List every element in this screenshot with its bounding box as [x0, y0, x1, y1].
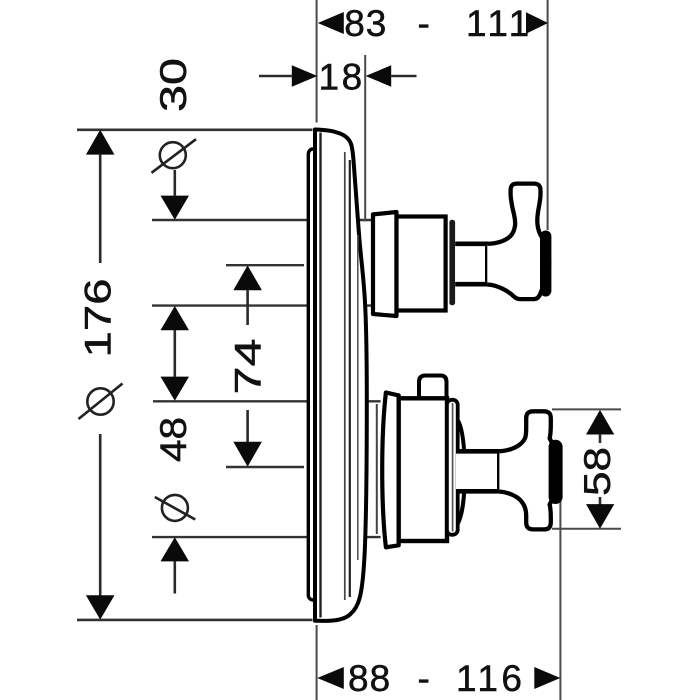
- dimension 83-111 (top): [318, 3, 548, 44]
- construction line lower rim top (y=401): [153, 400, 381, 402]
- extension line plate back (top): [316, 0, 318, 123]
- dimension diameter 30: [152, 58, 197, 377]
- lower cross handle: [499, 411, 555, 529]
- lower cap inner line: [452, 403, 454, 532]
- arrowhead up at y306: [161, 306, 190, 330]
- upper cross handle: [487, 184, 549, 300]
- construction line upper rim bottom (y=306): [152, 304, 371, 306]
- construction line top (plate top, y=130): [77, 129, 313, 132]
- construction line lower rim bottom (y=537): [152, 536, 381, 538]
- dimension line lower: [599, 497, 602, 505]
- arrowhead left: [318, 12, 344, 34]
- arrowhead up: [233, 265, 262, 290]
- arrowhead down at y220: [161, 196, 190, 220]
- extension line lower handle front: [559, 495, 561, 700]
- escutcheon plate back lip: [308, 149, 317, 600]
- construction line upper handle axis (y=265): [226, 264, 304, 266]
- svg-text:58: 58: [577, 447, 618, 496]
- dimension 74: [228, 265, 269, 466]
- diameter symbol: [162, 495, 188, 521]
- svg-text:30: 30: [153, 58, 194, 112]
- upper valve body cylinder: [397, 217, 446, 311]
- dimension 58: [577, 410, 618, 529]
- arrowhead right: [526, 12, 548, 33]
- lower stem: [456, 451, 499, 491]
- plate dome base line: [357, 235, 359, 560]
- arrowhead left: [317, 667, 344, 689]
- dimension line upper: [246, 290, 249, 325]
- svg-text:48: 48: [153, 417, 194, 462]
- plate ring edge 2: [349, 160, 351, 597]
- dimension 18: [259, 57, 417, 98]
- extension line plate front (18 dim): [364, 55, 366, 222]
- extension line lower handle bottom: [552, 528, 621, 530]
- dimension line upper: [99, 154, 102, 263]
- arrowhead pointing right: [292, 65, 318, 87]
- svg-text:74: 74: [228, 339, 269, 395]
- tail line below: [174, 561, 177, 594]
- leader line left: [259, 75, 292, 78]
- extension line upper handle front: [547, 0, 549, 230]
- lower valve collar: [382, 393, 399, 548]
- lower front dome: [458, 421, 465, 524]
- diameter symbol: [87, 388, 113, 414]
- svg-text:176: 176: [78, 279, 119, 358]
- arrowhead down: [233, 442, 262, 467]
- dimension diameter 48: [153, 377, 195, 594]
- construction line upper rim top (y=220): [152, 219, 371, 221]
- arrowhead up: [86, 130, 115, 155]
- extension line plate back (bottom): [316, 625, 318, 700]
- dimension line lower: [246, 410, 249, 442]
- escutcheon plate silhouette: [315, 130, 367, 621]
- lower handle front arm (black band): [549, 447, 563, 497]
- upper valve collar: [373, 212, 397, 316]
- construction line plate bottom (y=620): [77, 619, 313, 622]
- leader line right: [391, 75, 416, 78]
- tail line: [174, 330, 177, 377]
- dimension 88-116 (bottom): [317, 658, 560, 699]
- lower front cap: [447, 400, 458, 535]
- upper stem: [455, 244, 487, 284]
- arrowhead up at y537: [161, 537, 190, 561]
- upper body front rim band: [449, 220, 455, 306]
- arrowhead right: [534, 667, 560, 689]
- construction line lower handle axis (y=467): [226, 466, 304, 468]
- dimension line upper: [599, 434, 602, 443]
- svg-text:18: 18: [319, 57, 365, 98]
- leader stub: [174, 170, 177, 196]
- dimension line lower: [99, 434, 102, 596]
- dimension diameter 176 (left): [78, 130, 123, 620]
- lower collar rear flange line: [376, 404, 378, 534]
- lower valve body cylinder: [399, 398, 447, 541]
- arrowhead down at y401: [161, 377, 190, 401]
- safety stop button: [419, 376, 447, 400]
- arrowhead down: [586, 504, 614, 529]
- plate ring edge 1: [344, 152, 346, 600]
- extension line lower handle top: [552, 408, 621, 410]
- arrowhead down: [86, 595, 115, 619]
- upper handle front arm (black band): [540, 236, 551, 291]
- arrowhead pointing left: [366, 65, 392, 87]
- diameter symbol: [160, 142, 186, 168]
- plate face edge line: [319, 133, 321, 618]
- arrowhead up: [586, 410, 614, 435]
